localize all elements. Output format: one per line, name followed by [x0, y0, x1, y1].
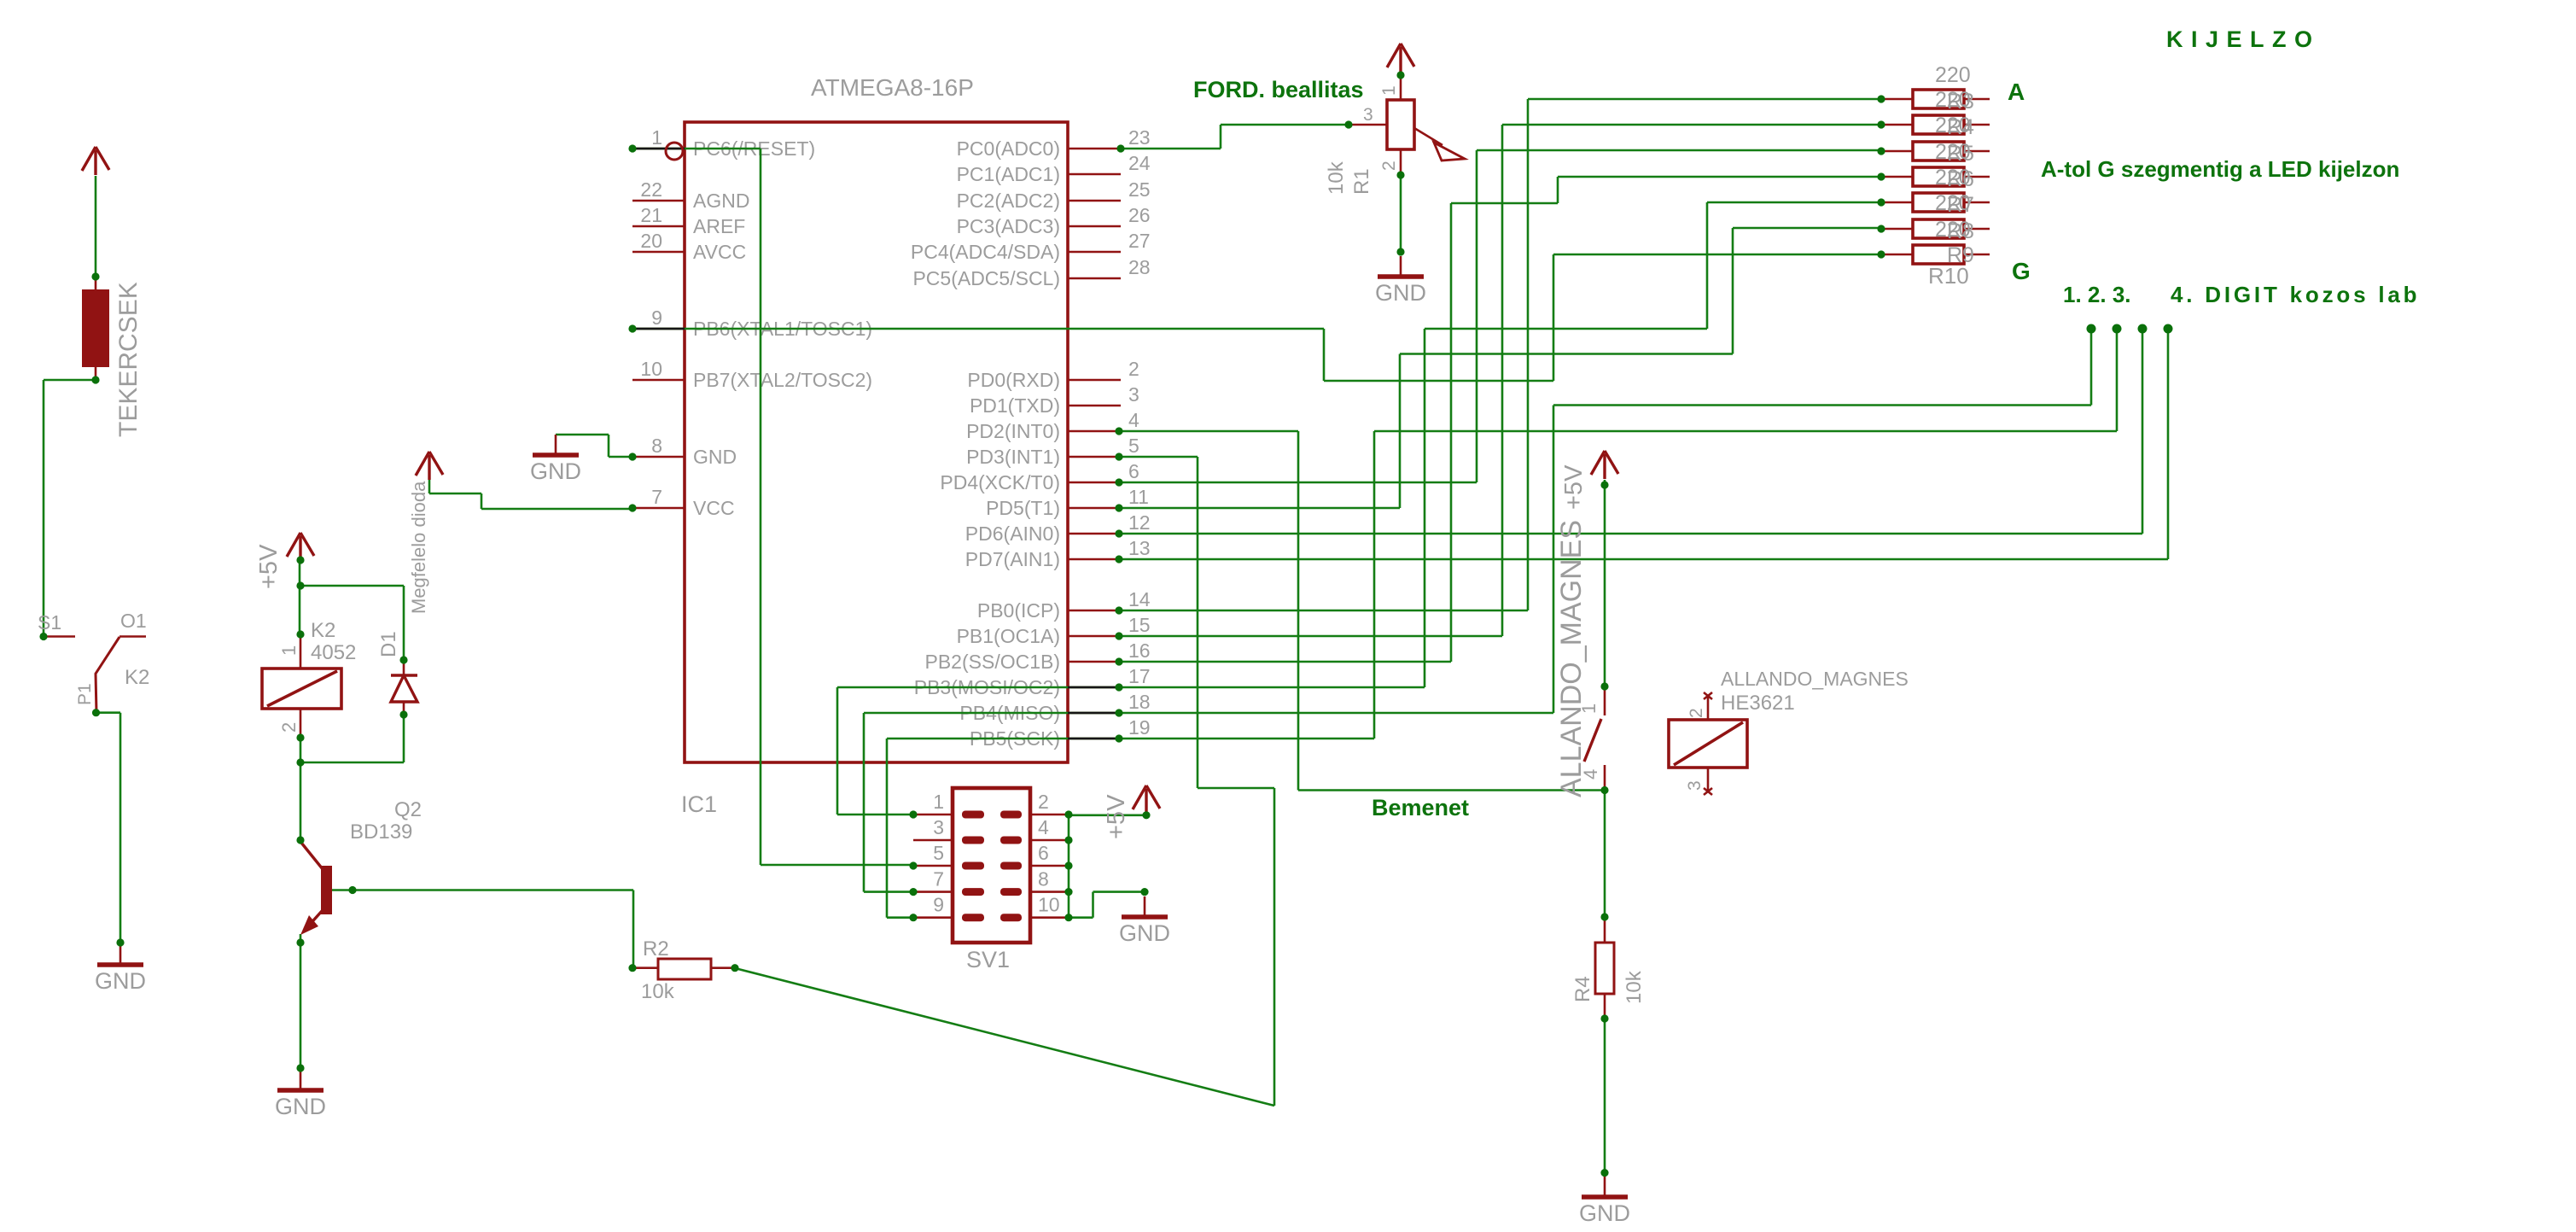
- svg-text:8: 8: [1038, 868, 1049, 890]
- svg-text:R1: R1: [1350, 168, 1373, 195]
- svg-text:R3: R3: [1947, 90, 1974, 114]
- svg-text:KIJELZO: KIJELZO: [2166, 26, 2321, 52]
- svg-text:10k: 10k: [641, 980, 675, 1003]
- svg-text:GND: GND: [1375, 280, 1426, 306]
- svg-text:VCC: VCC: [693, 497, 735, 519]
- svg-text:K2: K2: [125, 666, 149, 689]
- svg-text:4: 4: [1038, 816, 1049, 838]
- svg-text:1: 1: [651, 126, 662, 149]
- svg-text:Megfelelo dioda: Megfelelo dioda: [408, 481, 429, 614]
- svg-text:S1: S1: [38, 611, 61, 634]
- svg-text:K2: K2: [311, 619, 335, 642]
- svg-text:R2: R2: [643, 937, 669, 960]
- svg-text:PB7(XTAL2/TOSC2): PB7(XTAL2/TOSC2): [693, 369, 872, 391]
- svg-text:11: 11: [1128, 486, 1149, 508]
- svg-text:220: 220: [1935, 63, 1971, 87]
- svg-text:ATMEGA8-16P: ATMEGA8-16P: [811, 74, 974, 101]
- svg-text:PD0(RXD): PD0(RXD): [967, 369, 1060, 391]
- svg-text:10: 10: [640, 358, 662, 380]
- svg-text:+5V: +5V: [255, 544, 283, 589]
- svg-text:SV1: SV1: [966, 947, 1010, 972]
- svg-text:3: 3: [1363, 105, 1373, 125]
- svg-text:24: 24: [1128, 152, 1151, 174]
- svg-text:2: 2: [1379, 161, 1399, 171]
- svg-text:AREF: AREF: [693, 215, 745, 237]
- svg-text:PC5(ADC5/SCL): PC5(ADC5/SCL): [912, 267, 1060, 289]
- svg-text:22: 22: [640, 178, 662, 201]
- svg-text:R10: R10: [1928, 263, 1969, 289]
- svg-text:PD4(XCK/T0): PD4(XCK/T0): [940, 471, 1060, 493]
- svg-text:GND: GND: [1579, 1200, 1630, 1226]
- svg-text:PB1(OC1A): PB1(OC1A): [957, 625, 1060, 647]
- svg-text:GND: GND: [95, 968, 146, 994]
- svg-text:A-tol G szegmentig a LED kijel: A-tol G szegmentig a LED kijelzon: [2041, 156, 2399, 182]
- svg-text:18: 18: [1128, 691, 1151, 713]
- svg-text:17: 17: [1128, 665, 1151, 687]
- svg-text:3: 3: [1128, 383, 1139, 406]
- svg-text:Bemenet: Bemenet: [1372, 795, 1469, 820]
- svg-text:R5: R5: [1947, 142, 1974, 166]
- svg-text:GND: GND: [275, 1094, 326, 1119]
- svg-text:PB0(ICP): PB0(ICP): [977, 599, 1060, 622]
- svg-text:2: 2: [1128, 358, 1139, 380]
- svg-text:3: 3: [1685, 780, 1705, 791]
- svg-text:4: 4: [1128, 409, 1139, 431]
- svg-text:Q2: Q2: [394, 798, 422, 821]
- svg-text:5: 5: [1128, 435, 1139, 457]
- svg-text:+5V: +5V: [1560, 464, 1588, 510]
- svg-text:R8: R8: [1947, 219, 1974, 243]
- svg-text:1: 1: [278, 645, 300, 656]
- svg-text:4. DIGIT kozos lab: 4. DIGIT kozos lab: [2171, 282, 2420, 307]
- svg-text:6: 6: [1038, 842, 1049, 864]
- svg-text:GND: GND: [693, 446, 737, 468]
- svg-text:10k: 10k: [1325, 161, 1348, 195]
- svg-text:12: 12: [1128, 511, 1151, 534]
- svg-text:1: 1: [933, 791, 944, 813]
- svg-text:PD5(T1): PD5(T1): [986, 497, 1060, 519]
- svg-text:D1: D1: [377, 631, 400, 657]
- svg-text:IC1: IC1: [681, 791, 717, 817]
- svg-text:FORD. beallitas: FORD. beallitas: [1193, 77, 1364, 102]
- svg-text:4052: 4052: [311, 641, 356, 664]
- svg-text:HE3621: HE3621: [1721, 692, 1795, 715]
- svg-text:PD6(AIN0): PD6(AIN0): [965, 523, 1060, 545]
- svg-text:23: 23: [1128, 126, 1151, 149]
- svg-text:PD3(INT1): PD3(INT1): [966, 446, 1060, 468]
- svg-text:ALLANDO_MAGNES: ALLANDO_MAGNES: [1555, 520, 1588, 797]
- svg-text:PB2(SS/OC1B): PB2(SS/OC1B): [925, 651, 1061, 673]
- svg-text:2: 2: [1687, 708, 1706, 718]
- svg-text:PC2(ADC2): PC2(ADC2): [957, 190, 1060, 212]
- svg-text:6: 6: [1128, 460, 1139, 482]
- svg-text:7: 7: [651, 486, 662, 508]
- svg-text:BD139: BD139: [350, 820, 412, 844]
- svg-text:+5V: +5V: [1103, 794, 1130, 839]
- svg-text:3: 3: [933, 816, 944, 838]
- svg-text:PC3(ADC3): PC3(ADC3): [957, 215, 1060, 237]
- svg-text:PD1(TXD): PD1(TXD): [970, 394, 1060, 417]
- svg-text:PD7(AIN1): PD7(AIN1): [965, 548, 1060, 570]
- svg-text:16: 16: [1128, 639, 1151, 662]
- svg-text:1: 1: [1379, 85, 1399, 96]
- svg-text:8: 8: [651, 435, 662, 457]
- svg-text:26: 26: [1128, 204, 1151, 226]
- svg-text:PC1(ADC1): PC1(ADC1): [957, 163, 1060, 185]
- svg-text:5: 5: [933, 842, 944, 864]
- svg-text:A: A: [2008, 79, 2025, 105]
- svg-text:14: 14: [1128, 588, 1151, 610]
- svg-text:G: G: [2012, 258, 2031, 284]
- svg-text:27: 27: [1128, 230, 1151, 252]
- svg-text:10: 10: [1038, 894, 1060, 916]
- svg-text:2: 2: [278, 722, 300, 733]
- svg-text:P1: P1: [75, 683, 95, 705]
- svg-text:GND: GND: [530, 458, 581, 484]
- svg-text:AGND: AGND: [693, 190, 749, 212]
- svg-text:2: 2: [1038, 791, 1049, 813]
- svg-text:AVCC: AVCC: [693, 241, 746, 263]
- svg-text:19: 19: [1128, 716, 1151, 739]
- svg-text:PC0(ADC0): PC0(ADC0): [957, 137, 1060, 160]
- svg-text:28: 28: [1128, 256, 1151, 278]
- svg-text:R7: R7: [1947, 193, 1974, 217]
- svg-text:PD2(INT0): PD2(INT0): [966, 420, 1060, 442]
- svg-text:20: 20: [640, 230, 662, 252]
- svg-text:9: 9: [933, 894, 944, 916]
- svg-text:TEKERCSEK: TEKERCSEK: [114, 282, 143, 437]
- svg-text:PC4(ADC4/SDA): PC4(ADC4/SDA): [911, 241, 1060, 263]
- svg-text:1. 2. 3.: 1. 2. 3.: [2063, 282, 2131, 307]
- svg-text:GND: GND: [1119, 920, 1170, 946]
- svg-text:R4: R4: [1947, 115, 1974, 139]
- svg-text:O1: O1: [120, 610, 147, 632]
- svg-text:21: 21: [640, 204, 662, 226]
- svg-text:13: 13: [1128, 537, 1151, 559]
- svg-text:R6: R6: [1947, 167, 1974, 191]
- svg-text:9: 9: [651, 307, 662, 329]
- svg-text:15: 15: [1128, 614, 1151, 636]
- svg-text:10k: 10k: [1623, 970, 1646, 1004]
- svg-text:ALLANDO_MAGNES: ALLANDO_MAGNES: [1721, 668, 1909, 690]
- svg-text:25: 25: [1128, 178, 1151, 201]
- svg-text:R4: R4: [1571, 976, 1594, 1002]
- svg-text:7: 7: [933, 868, 944, 890]
